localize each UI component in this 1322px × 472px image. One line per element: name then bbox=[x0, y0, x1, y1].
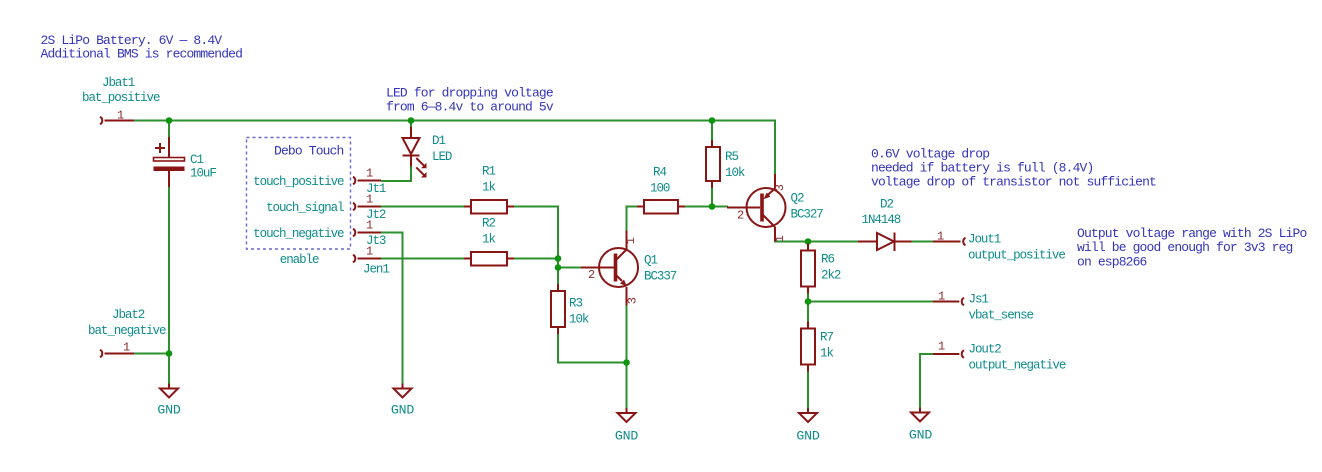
svg-text:GND: GND bbox=[796, 429, 819, 444]
ground GND (Jbat2) bbox=[157, 384, 180, 418]
junction R5 bottom node bbox=[709, 203, 716, 210]
wire Js1 row bbox=[808, 301, 960, 303]
svg-text:BC327: BC327 bbox=[791, 208, 824, 222]
connector Jt1 bbox=[353, 167, 386, 197]
connector Jout2 bbox=[933, 340, 1066, 373]
svg-text:Jen1: Jen1 bbox=[363, 263, 389, 277]
svg-text:1: 1 bbox=[366, 219, 373, 233]
svg-text:Jbat1: Jbat1 bbox=[102, 76, 135, 90]
svg-text:voltage drop of transistor not: voltage drop of transistor not sufficien… bbox=[871, 175, 1156, 190]
svg-text:0.6V voltage drop: 0.6V voltage drop bbox=[871, 146, 989, 161]
resistor R1 bbox=[464, 165, 514, 214]
svg-text:touch_positive: touch_positive bbox=[253, 175, 344, 189]
wire Q1 emitter down to GND bbox=[626, 287, 628, 408]
resistor R4 bbox=[637, 166, 685, 214]
wire Jbat2 row to junction bbox=[134, 353, 169, 355]
wire D1 branch bbox=[410, 121, 412, 139]
svg-text:1: 1 bbox=[938, 340, 945, 354]
svg-text:LED for dropping voltage: LED for dropping voltage bbox=[386, 85, 553, 100]
connector Jout1 bbox=[933, 230, 1065, 263]
svg-text:GND: GND bbox=[157, 403, 180, 418]
wire top bus bat_positive bbox=[134, 121, 775, 175]
svg-text:output_positive: output_positive bbox=[968, 249, 1065, 263]
svg-text:3: 3 bbox=[773, 184, 787, 191]
wire Jout2 to GND bbox=[920, 354, 960, 408]
wire C1 bottom to Jbat2 row bbox=[168, 171, 170, 354]
resistor R7 bbox=[801, 322, 833, 372]
svg-text:R1: R1 bbox=[482, 165, 495, 179]
svg-text:R2: R2 bbox=[482, 217, 495, 231]
note: 0.6V voltage drop comment bbox=[871, 146, 1156, 189]
svg-text:R4: R4 bbox=[653, 166, 666, 180]
wire R4 to Q2 base bbox=[678, 206, 728, 208]
svg-text:Debo Touch: Debo Touch bbox=[274, 144, 344, 159]
wire R7 top bbox=[807, 302, 809, 329]
svg-text:1: 1 bbox=[123, 341, 130, 355]
svg-text:1: 1 bbox=[366, 167, 373, 181]
svg-text:R7: R7 bbox=[820, 331, 833, 345]
wire Q2 base pin bbox=[727, 207, 747, 209]
connector Jt3 bbox=[353, 219, 386, 249]
wire R6 bottom to Js1 row bbox=[807, 287, 809, 302]
wire D2 cathode to Jout1 bbox=[895, 241, 960, 243]
svg-text:R6: R6 bbox=[821, 253, 834, 267]
wire Q1 collector up to R4 row bbox=[627, 207, 645, 249]
svg-text:R5: R5 bbox=[725, 150, 738, 164]
svg-text:1: 1 bbox=[937, 230, 944, 244]
svg-text:Q2: Q2 bbox=[791, 192, 804, 206]
diode D2 1N4148 bbox=[858, 198, 912, 252]
transistor Q1 BC337 bbox=[581, 231, 677, 306]
wire R3 bottom to emitter line bbox=[558, 327, 627, 363]
note: output voltage range comment bbox=[1077, 226, 1306, 269]
wire R1 to vertical node bbox=[507, 207, 558, 292]
svg-text:will be good enough for 3v3 re: will be good enough for 3v3 reg bbox=[1077, 240, 1293, 255]
svg-text:3: 3 bbox=[626, 297, 640, 304]
junction R5 branch bbox=[709, 117, 716, 124]
svg-text:on esp8266: on esp8266 bbox=[1077, 254, 1147, 269]
connector Jen1 bbox=[353, 245, 389, 277]
junction R2 node bbox=[555, 255, 562, 262]
wire R6 branch bbox=[807, 242, 809, 251]
wire Jen1 row to R2 bbox=[381, 258, 471, 260]
svg-text:bat_positive: bat_positive bbox=[82, 91, 160, 105]
resistor R3 bbox=[551, 284, 589, 334]
resistor R6 bbox=[801, 244, 841, 294]
svg-text:10uF: 10uF bbox=[190, 167, 216, 181]
svg-text:BC337: BC337 bbox=[644, 270, 677, 284]
wire R5 bottom bbox=[711, 181, 713, 207]
svg-text:1k: 1k bbox=[820, 347, 833, 361]
svg-text:needed if battery is full (8.4: needed if battery is full (8.4V) bbox=[871, 161, 1093, 176]
svg-text:vbat_sense: vbat_sense bbox=[969, 309, 1034, 323]
svg-text:2k2: 2k2 bbox=[821, 269, 841, 283]
wire R5 top bbox=[711, 121, 713, 148]
ground GND (R7) bbox=[796, 408, 819, 444]
svg-text:100: 100 bbox=[650, 182, 670, 196]
junction Q1 base node bbox=[555, 264, 562, 271]
ground GND (Q1 emitter) bbox=[615, 408, 638, 444]
Debo Touch dashed box bbox=[247, 138, 351, 250]
svg-text:GND: GND bbox=[615, 429, 638, 444]
wire R2 to vertical node bbox=[507, 258, 558, 260]
svg-text:enable: enable bbox=[280, 253, 319, 267]
svg-text:1: 1 bbox=[117, 109, 124, 123]
connector Jbat2 bbox=[88, 308, 166, 357]
svg-text:2: 2 bbox=[737, 209, 744, 223]
wire Jt3 to GND bbox=[381, 233, 403, 384]
svg-text:bat_negative: bat_negative bbox=[88, 324, 166, 338]
svg-text:output_negative: output_negative bbox=[969, 359, 1066, 373]
svg-text:2: 2 bbox=[588, 268, 595, 282]
capacitor C1 bbox=[154, 137, 217, 187]
junction D1 branch bbox=[408, 117, 415, 124]
svg-text:1: 1 bbox=[624, 237, 638, 244]
svg-text:10k: 10k bbox=[725, 166, 745, 180]
svg-text:Jout1: Jout1 bbox=[968, 233, 1001, 247]
junction Js1 node bbox=[805, 298, 812, 305]
svg-text:from 6—8.4v to around 5v: from 6—8.4v to around 5v bbox=[386, 100, 554, 115]
svg-text:C1: C1 bbox=[190, 153, 203, 167]
svg-text:D1: D1 bbox=[432, 134, 445, 148]
svg-text:touch_signal: touch_signal bbox=[266, 201, 344, 215]
connector Jt2 bbox=[353, 193, 386, 223]
svg-text:1k: 1k bbox=[482, 181, 495, 195]
junction Q2 collector node bbox=[805, 238, 812, 245]
svg-text:touch_negative: touch_negative bbox=[253, 227, 344, 241]
ground GND (touch_negative) bbox=[391, 384, 414, 418]
svg-text:D2: D2 bbox=[880, 198, 893, 212]
svg-text:GND: GND bbox=[909, 428, 932, 443]
ground GND (Jout2) bbox=[909, 408, 932, 443]
svg-text:10k: 10k bbox=[569, 313, 589, 327]
note: 2S LiPo battery comment bbox=[41, 33, 243, 61]
junction bat+ / C1 bbox=[166, 117, 173, 124]
svg-text:R3: R3 bbox=[569, 297, 582, 311]
svg-text:1: 1 bbox=[773, 235, 787, 242]
resistor R2 bbox=[464, 217, 514, 266]
svg-text:Jout2: Jout2 bbox=[969, 343, 1002, 357]
svg-text:LED: LED bbox=[432, 150, 452, 164]
transistor Q2 BC327 bbox=[737, 174, 823, 242]
wire R7 bottom to GND bbox=[807, 365, 809, 409]
svg-text:Js1: Js1 bbox=[969, 293, 989, 307]
svg-text:1: 1 bbox=[938, 290, 945, 304]
wire Jbat2 junction down to GND bbox=[168, 354, 170, 384]
wire Q2 collector to D2 row bbox=[775, 227, 877, 242]
junction Q1 emitter node bbox=[623, 359, 630, 366]
svg-text:Q1: Q1 bbox=[644, 254, 657, 268]
wire C1 branch down bbox=[168, 121, 170, 158]
svg-text:1N4148: 1N4148 bbox=[862, 213, 901, 227]
svg-text:Additional BMS is recommended: Additional BMS is recommended bbox=[41, 47, 243, 62]
svg-text:Jbat2: Jbat2 bbox=[112, 308, 145, 322]
wire Jt2 row to R1 bbox=[381, 206, 471, 208]
LED D1 bbox=[403, 127, 452, 178]
svg-text:1: 1 bbox=[366, 245, 373, 259]
svg-text:GND: GND bbox=[391, 403, 414, 418]
svg-text:1: 1 bbox=[366, 193, 373, 207]
wire Q1 base bbox=[558, 267, 582, 269]
wire D1 cathode to Jt1 bbox=[381, 156, 411, 182]
svg-text:1k: 1k bbox=[482, 233, 495, 247]
note: LED dropping voltage comment bbox=[386, 85, 554, 114]
connector Js1 bbox=[933, 290, 1034, 323]
resistor R5 bbox=[706, 140, 745, 188]
junction Jbat2 node bbox=[166, 350, 173, 357]
svg-text:Output voltage range with 2S L: Output voltage range with 2S LiPo bbox=[1077, 226, 1306, 241]
connector Jbat1 bbox=[82, 76, 160, 124]
